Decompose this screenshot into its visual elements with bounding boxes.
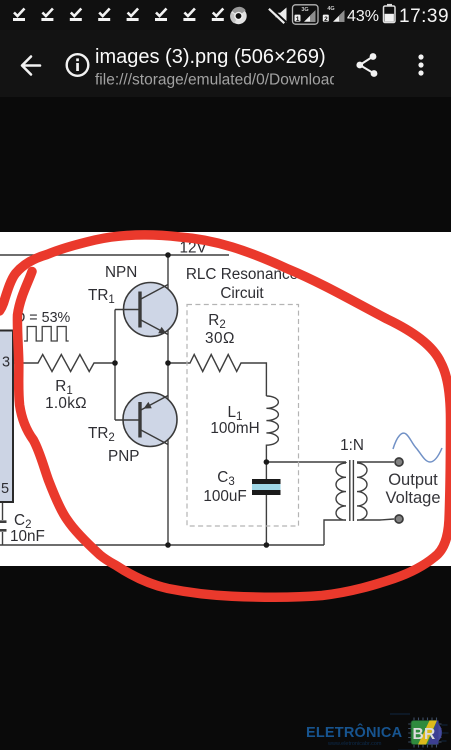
label NPN — [105, 264, 137, 281]
label 1:N — [340, 437, 364, 454]
label 100uF — [203, 488, 246, 505]
sine wave symbol — [393, 433, 442, 462]
back arrow — [22, 57, 40, 75]
transformer T1 primary — [324, 462, 346, 545]
label TR2 — [88, 425, 115, 444]
info icon — [67, 54, 89, 76]
app bar content — [0, 30, 451, 97]
label PNP — [108, 448, 139, 465]
svg-text:ELETRÔNICA: ELETRÔNICA — [306, 723, 403, 741]
label RLC Resonance — [186, 266, 298, 283]
subtitle — [95, 72, 338, 89]
app bar — [0, 30, 451, 97]
label 1.0kohm — [45, 395, 87, 412]
watermark — [0, 700, 451, 750]
dashed box RLC — [187, 305, 299, 527]
label 30ohm — [205, 330, 235, 347]
capacitor C3 — [252, 479, 281, 495]
wire 12V rail — [0, 254, 229, 256]
label 10nF — [10, 528, 45, 545]
node base junction — [112, 360, 118, 366]
resistor R2 — [168, 355, 266, 397]
label R1 — [55, 378, 72, 397]
label 100mH — [210, 420, 259, 437]
transistor Q2 PNP body — [115, 393, 177, 447]
label 12V — [180, 240, 208, 257]
IC block 555 — [0, 331, 13, 503]
red oval annotation — [0, 235, 451, 597]
output terminal top — [395, 458, 403, 466]
transformer T1 core — [350, 460, 354, 521]
battery — [384, 4, 396, 23]
pin 3 — [2, 355, 10, 371]
wire C3 branch — [265, 462, 267, 545]
overflow menu — [418, 54, 423, 75]
square wave symbol — [24, 327, 69, 342]
label C3 — [217, 469, 234, 488]
node bottom rail 1 — [165, 542, 171, 548]
wire L1 to transformer — [266, 461, 346, 463]
sim1 signal with box — [293, 5, 319, 24]
white image area with circuit — [0, 232, 451, 566]
label TR1 — [88, 287, 115, 306]
node 12V junction — [165, 252, 171, 258]
notification check icons x8 — [13, 9, 224, 20]
node bottom rail 2 — [264, 542, 270, 548]
mute icon — [268, 7, 287, 24]
svg-text:BR: BR — [413, 726, 436, 743]
resistor R1 — [13, 355, 115, 372]
label C2 — [14, 512, 31, 531]
status bar — [0, 0, 451, 30]
pin 5 — [1, 481, 9, 497]
svg-text:www.eletronicabr.com: www.eletronicabr.com — [327, 741, 382, 747]
status bar icons svg — [0, 0, 451, 30]
label L1 — [228, 404, 243, 423]
label R2 — [208, 312, 225, 331]
wire base vertical — [114, 310, 116, 421]
wire vertical rail collector-emitter — [167, 255, 169, 545]
node emitter junction — [165, 360, 171, 366]
label Circuit — [220, 285, 264, 302]
wire bottom rail — [0, 544, 324, 546]
chrome icon — [230, 7, 247, 24]
inductor L1 — [266, 396, 278, 462]
capacitor C2 — [0, 502, 7, 545]
label D=53% — [15, 310, 71, 326]
label Voltage — [385, 489, 440, 507]
transistor Q1 NPN body — [115, 283, 178, 337]
sim2 signal — [323, 6, 345, 23]
transformer T1 secondary — [357, 462, 394, 520]
output terminal bottom — [395, 515, 403, 523]
node L1-C3 junction — [264, 459, 270, 465]
label Output — [388, 471, 438, 489]
share icon — [356, 53, 377, 77]
